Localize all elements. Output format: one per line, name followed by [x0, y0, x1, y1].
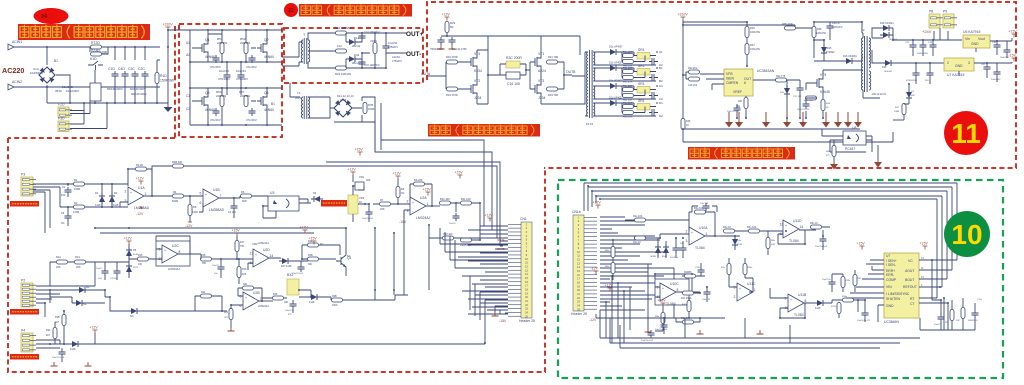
resistor R6	[241, 194, 252, 198]
svg-text:-: -	[739, 295, 740, 299]
svg-text:I LIM/SS/SYNC: I LIM/SS/SYNC	[886, 292, 910, 296]
connector F3D	[58, 117, 72, 132]
resistor R8c	[623, 94, 634, 98]
wire	[997, 41, 1007, 58]
svg-text:P4: P4	[21, 329, 25, 333]
wire R24	[55, 311, 64, 344]
svg-text:U11C: U11C	[747, 282, 756, 286]
resistor R52	[244, 43, 248, 54]
capacitor C9x	[938, 314, 945, 322]
svg-text:40N60: 40N60	[264, 108, 274, 112]
resistor R8a	[623, 60, 634, 64]
wire channel A1	[593, 52, 656, 65]
svg-text:SR1: SR1	[638, 64, 645, 68]
capacitor C21	[797, 85, 804, 93]
svg-text:C4D: C4D	[118, 67, 125, 71]
ground arrow	[830, 160, 838, 170]
power -15V	[499, 319, 507, 323]
power +310V	[163, 23, 174, 31]
svg-text:R45: R45	[686, 120, 691, 123]
wire Q1 legs	[345, 228, 347, 276]
power -12V	[185, 222, 193, 228]
power +12V	[393, 172, 402, 180]
svg-text:CN1b: CN1b	[572, 210, 581, 214]
svg-text:LM324AJ: LM324AJ	[258, 304, 270, 308]
svg-text:35V: 35V	[925, 80, 929, 82]
wire opto	[822, 129, 872, 152]
svg-text:C2C: C2C	[138, 67, 145, 71]
svg-text:R2B: R2B	[55, 316, 60, 319]
capacitor C25	[910, 42, 917, 50]
wire rect diodes	[346, 33, 362, 68]
wire +310V rail	[160, 30, 168, 103]
wire +310V to H-bridge	[168, 29, 282, 31]
svg-text:150K/3W: 150K/3W	[160, 79, 175, 83]
capacitor C7c	[649, 92, 657, 99]
resistor R14u	[685, 274, 696, 278]
svg-text:10uC10 104: 10uC10 104	[52, 357, 65, 359]
wire diode clamp	[85, 202, 128, 207]
svg-text:VR1: VR1	[359, 175, 365, 179]
svg-text:4K7: 4K7	[55, 321, 60, 324]
wire channel B1	[593, 68, 656, 81]
wire D10	[299, 290, 331, 297]
wire CN1 risers	[440, 228, 508, 268]
resistor R20	[308, 243, 319, 247]
svg-text:C1: C1	[186, 94, 190, 98]
capacitor C12	[359, 33, 366, 41]
wire divider	[612, 240, 614, 280]
ground	[492, 312, 499, 316]
transistor Q1	[198, 38, 215, 59]
svg-text:COMP: COMP	[886, 278, 897, 282]
wire	[88, 47, 115, 52]
svg-text:B1: B1	[659, 66, 663, 70]
svg-text:GND: GND	[955, 64, 963, 68]
capacitor C14	[449, 37, 456, 45]
capacitor C22	[359, 59, 366, 67]
svg-text:P2: P2	[21, 279, 25, 283]
wire U2A out	[432, 205, 440, 207]
resistor R36	[745, 27, 749, 38]
capacitor C7a	[649, 58, 657, 65]
resistor R13	[75, 260, 86, 264]
resistor R44	[821, 100, 825, 111]
green section border (green dashed)	[558, 180, 1003, 378]
svg-text:TL084: TL084	[794, 313, 804, 317]
svg-text:D19: D19	[882, 66, 887, 69]
wire	[893, 119, 904, 121]
svg-text:C1: C1	[62, 185, 66, 189]
capacitor C1x	[703, 203, 710, 211]
resistor R22	[336, 66, 347, 70]
transistor Q3	[198, 91, 215, 112]
svg-text:T1: T1	[297, 91, 301, 95]
svg-text:+: +	[412, 201, 414, 205]
wire U2A inv	[404, 210, 410, 218]
svg-text:AC220: AC220	[2, 66, 24, 75]
svg-text:R19u: R19u	[747, 267, 753, 269]
wire gate drive	[787, 80, 800, 88]
svg-text:LM324AJ: LM324AJ	[258, 241, 270, 245]
top-right section border (red dashed)	[427, 2, 1016, 168]
IC U5 UC3843AN	[724, 69, 775, 96]
wire vertical joins	[375, 290, 394, 300]
diode D1b	[607, 65, 619, 71]
wire	[45, 290, 50, 317]
diode D8	[73, 300, 85, 306]
resistor R2E	[243, 286, 254, 290]
wire U11B wrap	[770, 288, 805, 318]
svg-text:D11,12,13,14: D11,12,13,14	[337, 94, 354, 98]
capacitor C13	[438, 37, 445, 45]
svg-text:Vin: Vin	[965, 37, 970, 41]
svg-text:UC3846N: UC3846N	[884, 320, 899, 324]
wire RC coupling	[500, 64, 530, 75]
svg-text:9: 9	[159, 248, 161, 252]
svg-text:R2B: R2B	[332, 295, 337, 298]
wire ch2	[622, 90, 656, 96]
svg-text:475/400V: 475/400V	[218, 77, 230, 81]
bridge rectifier	[334, 99, 352, 117]
svg-text:NC: NC	[86, 285, 90, 289]
wire long mid buses	[95, 228, 346, 233]
wire U7 out	[959, 63, 1012, 76]
transformer T core	[304, 38, 307, 64]
wire CN1b fan verticals	[606, 264, 674, 343]
capacitor C18	[689, 77, 700, 81]
ground arrow	[822, 112, 830, 128]
resistor R47	[902, 104, 906, 115]
svg-text:+12V: +12V	[393, 172, 402, 176]
wire P2 fan	[36, 286, 95, 303]
resistor R17	[235, 241, 239, 252]
svg-text:22R/2W: 22R/2W	[216, 94, 226, 98]
wire clamp leads	[658, 238, 683, 258]
svg-text:B1: B1	[271, 102, 275, 106]
diode D3u	[732, 236, 738, 248]
wire U2A inv feed	[404, 210, 410, 295]
svg-text:4148: 4148	[70, 348, 76, 351]
wire R8	[397, 179, 399, 204]
wire Q4	[251, 88, 267, 125]
svg-text:U2B: U2B	[253, 291, 260, 295]
resistor R8d	[623, 111, 634, 115]
svg-text:VR1D: VR1D	[370, 39, 377, 43]
resistor R3	[136, 167, 147, 171]
svg-text:-: -	[785, 232, 786, 236]
ground arrow	[762, 112, 770, 128]
op-amp U11D	[780, 219, 804, 243]
svg-text:P3: P3	[21, 173, 25, 177]
resistor R20u	[950, 310, 954, 321]
svg-text:R42 1T5: R42 1T5	[776, 75, 786, 78]
svg-text:20K: 20K	[76, 265, 81, 269]
svg-text:R25: R25	[273, 293, 278, 296]
wire driver pair A	[458, 50, 477, 89]
svg-text:OUT+: OUT+	[406, 31, 423, 38]
wire U10C nets	[682, 263, 705, 293]
wire P8 P9 leads	[934, 28, 948, 40]
diode D9	[128, 308, 140, 314]
svg-text:LM324AJ: LM324AJ	[168, 267, 180, 271]
svg-text:15:15: 15:15	[586, 122, 593, 126]
svg-text:U1A: U1A	[138, 186, 145, 190]
svg-text:5R: 5R	[450, 25, 453, 29]
svg-text:LM324AJ: LM324AJ	[416, 216, 431, 220]
svg-text:R15: R15	[138, 254, 143, 257]
svg-text:R18: R18	[201, 254, 206, 257]
capacitor C8	[218, 264, 225, 272]
wire big feedback to CN1	[152, 166, 503, 238]
power -15V	[399, 220, 407, 224]
svg-text:VIN: VIN	[886, 285, 892, 289]
svg-text:Q3: Q3	[205, 91, 210, 95]
resistor R2u	[635, 218, 646, 222]
drive transformer primary winding	[587, 52, 588, 116]
capacitor C5	[366, 209, 373, 217]
wire U10A out	[715, 235, 728, 237]
svg-text:J334: J334	[538, 96, 545, 100]
svg-text:C?2 100/2KV: C?2 100/2KV	[364, 63, 380, 67]
capacitor C7	[102, 268, 109, 276]
wire U1A out	[144, 195, 172, 197]
svg-text:D4? 4148: D4? 4148	[281, 265, 292, 268]
svg-text:5: 5	[240, 295, 242, 299]
svg-text:10uF/35V: 10uF/35V	[991, 79, 1001, 81]
svg-text:LM358AD: LM358AD	[209, 208, 225, 212]
svg-text:+12V: +12V	[593, 201, 602, 205]
capacitor C3C	[128, 67, 139, 79]
capacitor C27	[927, 70, 934, 78]
svg-text:6K8: 6K8	[242, 199, 247, 203]
resistor R3C (yellow)	[506, 61, 520, 68]
wire VT1 drain	[540, 36, 542, 50]
ground	[757, 330, 764, 334]
wire D9 link	[110, 297, 222, 311]
svg-text:K2645: K2645	[820, 90, 830, 94]
wire U10C wrap	[655, 274, 700, 297]
capacitor C34b	[249, 55, 256, 63]
resistor R33	[547, 87, 558, 91]
wire long verticals mid	[375, 225, 429, 290]
wire R28 out	[331, 295, 408, 300]
wire varistor	[362, 33, 386, 68]
op-amp U10C (boxed)	[655, 279, 689, 305]
wire center caps	[227, 62, 241, 95]
svg-text:C1: C1	[659, 84, 663, 88]
svg-text:R1z 250K: R1z 250K	[681, 297, 692, 300]
svg-text:22R/2W: 22R/2W	[240, 41, 250, 45]
svg-text:A1: A1	[659, 50, 663, 54]
svg-text:C3u 152: C3u 152	[702, 299, 711, 301]
svg-text:30K: 30K	[284, 301, 289, 304]
svg-text:U10C: U10C	[670, 282, 679, 286]
power -15V	[1009, 54, 1017, 62]
varistor VR1D	[373, 43, 377, 54]
ground	[228, 327, 235, 331]
svg-text:U7: U7	[886, 254, 890, 258]
op-amp U2C	[159, 244, 181, 263]
svg-text:100K/2W: 100K/2W	[816, 32, 827, 35]
wire CN1 lower fan	[470, 276, 508, 316]
wire U2C wrap	[156, 236, 201, 259]
svg-text:10uC8: 10uC8	[212, 265, 219, 267]
svg-text:+12V: +12V	[348, 168, 357, 172]
svg-text:-: -	[691, 239, 692, 243]
svg-text:-: -	[205, 201, 206, 205]
capacitor C6	[453, 213, 460, 221]
svg-text:VC: VC	[908, 259, 913, 263]
wire green bottom buses	[600, 310, 920, 348]
svg-text:U11D: U11D	[793, 219, 802, 223]
wire mix	[832, 300, 858, 318]
svg-text:R40 2K2: R40 2K2	[688, 67, 698, 70]
svg-text:6: 6	[240, 304, 242, 308]
power +15V	[455, 171, 464, 179]
svg-text:8: 8	[805, 299, 807, 303]
svg-text:4K7: 4K7	[46, 334, 51, 337]
wire ch out	[656, 68, 658, 78]
ground arrow	[874, 158, 882, 168]
svg-text:SR1: SR1	[638, 82, 645, 86]
resistor R8	[396, 187, 400, 198]
ground arrow	[783, 112, 791, 128]
resistor SR1 (yellow)	[637, 104, 650, 111]
wire cap bank top	[115, 47, 160, 60]
transistor VT2	[467, 79, 481, 100]
wire UC3846 left pins	[846, 260, 884, 322]
capacitor C28	[930, 42, 937, 50]
wire fuse links	[70, 101, 107, 129]
diode D10	[308, 294, 320, 300]
svg-text:D1b UF4007: D1b UF4007	[609, 62, 623, 65]
svg-text:2: 2	[125, 190, 127, 194]
svg-text:R6b 20R: R6b 20R	[623, 67, 633, 70]
svg-text:R16: R16	[242, 268, 247, 271]
wire T2 primary leads	[862, 33, 880, 98]
svg-text:14: 14	[270, 254, 274, 258]
svg-text:1: 1	[145, 192, 147, 196]
resistor R13u	[841, 277, 845, 288]
svg-text:R3C 200R: R3C 200R	[506, 56, 522, 60]
svg-text:U6 KA7915: U6 KA7915	[963, 30, 980, 34]
svg-text:R35: R35	[368, 103, 374, 107]
svg-text:I SEN-: I SEN-	[886, 263, 896, 267]
capacitor C23	[803, 101, 810, 109]
svg-text:1: 1	[706, 232, 708, 236]
ground	[449, 45, 456, 49]
wire input pair	[68, 184, 128, 207]
ground	[697, 330, 704, 334]
resistor R16	[237, 267, 241, 278]
svg-text:Q1: Q1	[205, 38, 210, 42]
svg-text:ACIN2: ACIN2	[12, 80, 22, 84]
svg-text:103: 103	[61, 193, 66, 197]
wire long bus 344	[50, 343, 310, 345]
wire Q2	[251, 30, 267, 62]
svg-text:NC: NC	[401, 192, 405, 195]
wire R17	[237, 236, 253, 259]
svg-text:100R: 100R	[73, 210, 79, 214]
resistor R10u	[687, 301, 691, 312]
resistor R4	[173, 194, 184, 198]
wire mid rail	[190, 61, 282, 63]
svg-text:C2: C2	[186, 107, 190, 111]
svg-text:+: +	[691, 231, 693, 235]
capacitor C11x	[972, 310, 979, 318]
wire comp	[683, 72, 688, 79]
capacitor C13u	[698, 267, 705, 275]
resistor R17u	[837, 303, 841, 314]
capacitor C31	[984, 64, 991, 72]
svg-text:RT2D: RT2D	[91, 41, 100, 45]
transistor Q4	[257, 91, 274, 112]
diode D16	[843, 58, 855, 64]
svg-text:CT: CT	[910, 302, 915, 306]
svg-text:R12 10R/2W: R12 10R/2W	[335, 26, 351, 30]
svg-text:SR1: SR1	[638, 48, 645, 52]
transformer T1 core	[304, 96, 307, 119]
wire VT5 drain-src	[806, 70, 863, 95]
op-amp U2D	[250, 248, 274, 267]
wire U2B out	[259, 300, 273, 302]
power +15V	[355, 148, 364, 156]
svg-text:A224: A224	[538, 69, 546, 73]
svg-text:Header 25: Header 25	[571, 312, 587, 316]
svg-text:10uC6: 10uC6	[449, 223, 456, 225]
resistor R23	[229, 309, 233, 320]
svg-text:R7: R7	[380, 198, 384, 202]
power +12V	[442, 13, 451, 21]
power +12V	[485, 214, 494, 222]
wire 2nd mid rail	[190, 88, 282, 125]
diode D4	[311, 196, 323, 202]
resistor RT1D	[91, 48, 102, 56]
svg-text:B11 10K: B11 10K	[461, 197, 471, 201]
red mini label (signal)	[321, 200, 347, 207]
op-amp U11C	[734, 282, 756, 301]
capacitor C29	[1004, 47, 1011, 55]
svg-text:UF4004: UF4004	[884, 71, 893, 73]
svg-text:10uC23 102: 10uC23 102	[797, 109, 810, 111]
svg-text:10uC33: 10uC33	[219, 69, 229, 73]
wire ch	[616, 52, 634, 56]
wire aux return bus	[683, 130, 893, 142]
wire R18 out	[201, 254, 237, 278]
svg-text:04V: 04V	[911, 95, 915, 97]
svg-text:10uC15: 10uC15	[285, 310, 293, 312]
wire ch2	[622, 56, 656, 62]
op-amp U10C	[657, 282, 680, 306]
wire UC3843 inputs	[700, 74, 724, 90]
wire rect top	[872, 28, 893, 40]
svg-text:30UF/35V: 30UF/35V	[968, 320, 978, 322]
svg-text:10uC9u 103: 10uC9u 103	[641, 340, 654, 342]
connector ACIN2	[8, 84, 14, 90]
capacitor C12u	[829, 279, 836, 287]
svg-text:3: 3	[734, 286, 736, 290]
resistor R25	[273, 296, 284, 300]
resistor R9y	[766, 238, 770, 249]
wire ch	[616, 86, 634, 90]
svg-text:11: 11	[951, 118, 981, 149]
header CN1	[508, 217, 535, 323]
wire out-	[386, 33, 407, 68]
transistor Q1	[336, 253, 352, 269]
svg-text:R2u 10K: R2u 10K	[633, 215, 643, 218]
svg-text:+12V: +12V	[124, 237, 133, 241]
